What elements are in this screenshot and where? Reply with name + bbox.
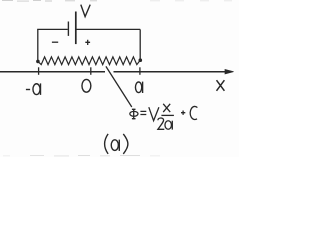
battery minus sign — [52, 41, 58, 43]
wire right vertical — [139, 29, 141, 59]
node dot right — [139, 58, 143, 62]
formula 2 — [158, 118, 164, 129]
wire left vertical — [37, 29, 39, 60]
label V (battery) — [81, 5, 90, 17]
label x (axis) — [217, 80, 225, 91]
formula C — [190, 106, 197, 119]
formula a denominator stem — [171, 121, 173, 130]
caption a oval — [111, 140, 118, 151]
formula V — [149, 107, 159, 121]
formula equals — [140, 111, 146, 114]
wire top-left horizontal — [37, 28, 68, 30]
label -a : a stem — [40, 83, 42, 95]
x-axis right segment — [114, 71, 231, 73]
scan noise bottom edge — [3, 155, 160, 157]
label a (axis) stem — [142, 82, 144, 93]
axis arrowhead — [225, 70, 234, 74]
caption ( — [105, 134, 109, 154]
scan noise top edge — [2, 0, 232, 2]
formula phi oval — [130, 111, 138, 116]
battery plus sign — [85, 40, 90, 45]
fraction bar — [161, 114, 174, 116]
label -a : a oval — [33, 84, 40, 95]
leader line to formula — [106, 66, 132, 107]
battery V positive plate — [75, 12, 77, 45]
battery V negative plate — [67, 22, 69, 36]
formula a denominator oval — [165, 121, 172, 130]
tick O — [90, 67, 92, 75]
formula phi serifs — [132, 109, 136, 118]
formula x numerator — [163, 104, 170, 112]
label -a : minus — [26, 89, 30, 91]
wire top-right horizontal — [77, 28, 141, 30]
label a (axis) oval — [135, 82, 141, 93]
x-axis left segment — [0, 71, 105, 73]
label O — [82, 79, 91, 92]
formula plus — [181, 111, 185, 115]
resistor zigzag — [38, 57, 140, 65]
caption ) — [123, 134, 128, 154]
formula phi stem — [133, 109, 135, 119]
node dot left — [36, 60, 40, 64]
caption a stem — [118, 140, 120, 151]
tick a — [139, 67, 141, 75]
tick -a — [38, 67, 40, 75]
